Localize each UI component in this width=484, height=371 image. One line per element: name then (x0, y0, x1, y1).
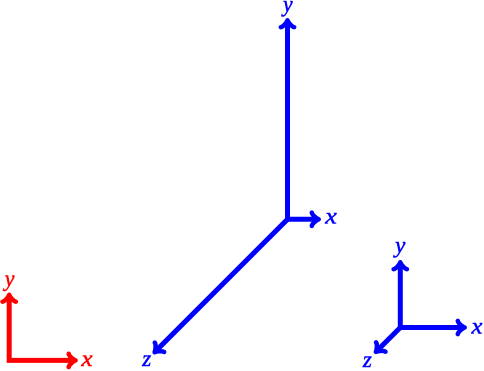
svg-text:y: y (393, 233, 406, 258)
wire big z-axis (155, 219, 288, 352)
small blue 3D axes (bottom right) (371, 262, 465, 356)
small y-axis arrowhead (394, 262, 407, 269)
big z-axis arrowhead (150, 343, 164, 357)
svg-text:x: x (470, 314, 482, 339)
wire big x-axis (288, 217, 319, 222)
wire red y-axis and x-axis polyline (9, 295, 75, 361)
svg-text:z: z (362, 347, 372, 371)
red y-axis arrowhead (3, 295, 16, 302)
svg-text:z: z (141, 346, 151, 371)
big blue 3D axes (center) (150, 20, 319, 357)
svg-text:y: y (3, 265, 15, 291)
small x-axis arrowhead (458, 321, 465, 334)
small z-axis arrowhead (371, 342, 385, 356)
wire small y-axis (398, 262, 403, 327)
svg-text:x: x (80, 347, 92, 371)
wire small x-axis (400, 325, 464, 330)
svg-text:y: y (281, 0, 293, 17)
red 2D axes (bottom left) (3, 295, 76, 367)
svg-text:x: x (324, 204, 337, 229)
red x-axis arrowhead (69, 354, 76, 367)
big y-axis arrowhead (281, 20, 294, 27)
big x-axis arrowhead (312, 213, 319, 226)
wire big y-axis (285, 20, 290, 220)
wire small z-axis (376, 328, 400, 352)
